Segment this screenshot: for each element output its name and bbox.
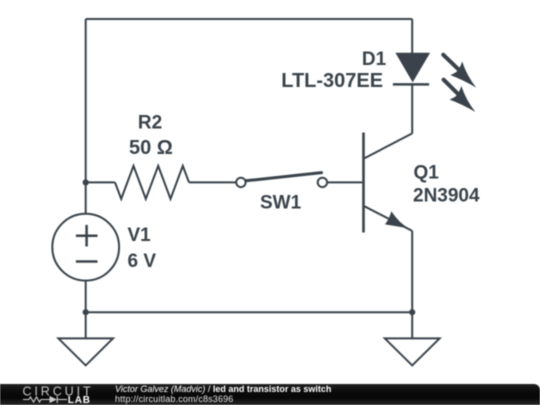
- ground left: [58, 338, 113, 365]
- wire emitter to bottom node: [411, 231, 413, 312]
- junction node at resistor tee: [83, 179, 89, 185]
- svg-text:SW1: SW1: [260, 193, 302, 214]
- svg-text:6 V: 6 V: [128, 251, 157, 272]
- LED emission arrow 1 shaft: [443, 55, 460, 71]
- wire left vertical (top corner to V1): [85, 19, 87, 214]
- LED D1 cathode bar: [393, 83, 429, 86]
- wire top horizontal: [86, 18, 413, 20]
- ground right: [385, 338, 440, 365]
- svg-text:2N3904: 2N3904: [413, 186, 480, 207]
- transistor Q1 base bar: [362, 133, 365, 233]
- LED emission arrow 2 shaft: [444, 80, 460, 96]
- wire resistor to switch: [189, 181, 236, 183]
- Q1 emitter arrowhead: [385, 211, 409, 228]
- wire LED cathode to collector: [411, 84, 413, 133]
- wire bottom horizontal: [86, 311, 413, 313]
- LED D1 triangle: [395, 53, 430, 83]
- Q1 emitter diagonal: [365, 206, 413, 231]
- wire top to LED anode: [411, 19, 413, 53]
- svg-text:LAB: LAB: [68, 395, 91, 405]
- footer logo CIRCUIT LAB: [0, 384, 110, 405]
- svg-text:50 Ω: 50 Ω: [129, 137, 173, 159]
- Q1 collector diagonal: [365, 133, 413, 158]
- junction node bottom left: [83, 309, 89, 315]
- V1 plus sign: [76, 225, 98, 247]
- wire switch to base: [327, 181, 362, 183]
- LED emission arrow 1 head: [450, 62, 476, 88]
- footer url line: [115, 394, 233, 404]
- svg-text:R2: R2: [138, 113, 162, 134]
- LED emission arrow 2 head: [450, 86, 476, 112]
- wire right node to ground: [411, 312, 413, 338]
- footer bar: [0, 384, 540, 405]
- junction node bottom right: [409, 309, 415, 315]
- footer attribution line: [115, 384, 331, 394]
- svg-text:D1: D1: [362, 49, 387, 70]
- svg-text:LTL-307EE: LTL-307EE: [281, 70, 383, 92]
- switch SW1 lever: [246, 173, 322, 181]
- voltage source V1 circle: [52, 214, 119, 281]
- switch SW1 right pole: [318, 178, 327, 187]
- wire V1 bottom to ground: [85, 281, 87, 339]
- V1 minus sign: [76, 260, 98, 263]
- resistor R2: [115, 166, 189, 199]
- svg-text:Q1: Q1: [414, 162, 440, 183]
- wire left node to resistor: [86, 181, 115, 183]
- svg-text:V1: V1: [128, 225, 152, 246]
- switch SW1 left pole: [236, 178, 245, 187]
